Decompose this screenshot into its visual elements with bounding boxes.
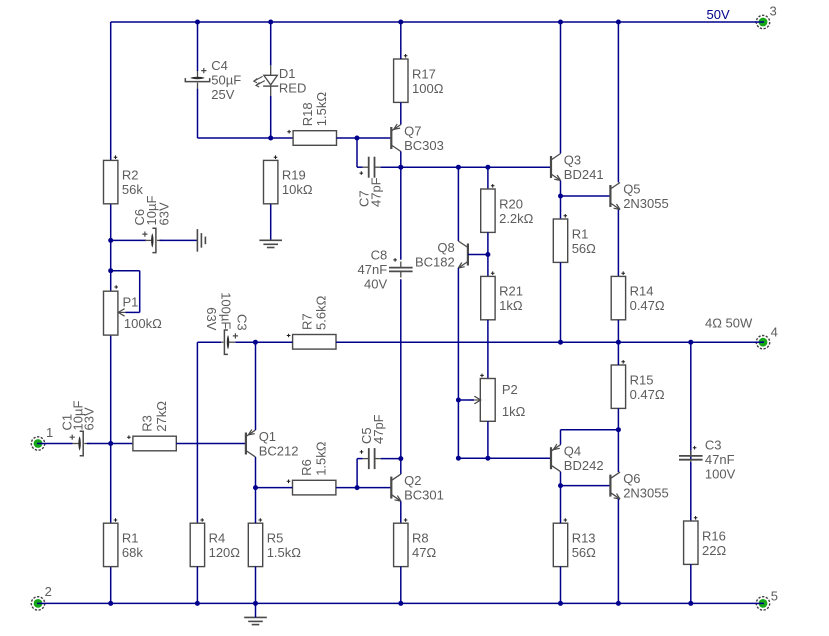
node C1/R3/left-rail junction xyxy=(108,441,113,446)
svg-text:R6: R6 xyxy=(299,459,314,476)
svg-text:BC212: BC212 xyxy=(259,443,299,458)
transistor Q7 BC303 PNP xyxy=(391,123,444,153)
resistor R4 120 xyxy=(190,518,240,566)
node C6 junction on left rail xyxy=(108,238,113,243)
svg-text:10kΩ: 10kΩ xyxy=(282,182,313,197)
capacitor C5 47pF xyxy=(363,448,381,469)
svg-text:56Ω: 56Ω xyxy=(572,545,596,560)
svg-text:1kΩ: 1kΩ xyxy=(502,404,526,419)
resistor R1 56 xyxy=(553,214,596,262)
svg-text:63V: 63V xyxy=(157,202,172,225)
svg-text:R19: R19 xyxy=(282,168,306,183)
wire top rail to C4 xyxy=(197,22,199,71)
potentiometer P1 100k xyxy=(104,285,163,335)
svg-text:27kΩ: 27kΩ xyxy=(154,401,169,432)
svg-text:R14: R14 xyxy=(630,284,654,299)
wire to Q6 base xyxy=(561,485,611,487)
wire rail to ground symbol xyxy=(255,603,257,617)
wire R2 bottom to P1 top xyxy=(110,204,112,291)
wire node to R5 xyxy=(255,488,257,524)
wire to Q5 base xyxy=(561,195,611,197)
svg-text:5.6kΩ: 5.6kΩ xyxy=(314,295,329,330)
node R1(56)/output rail junction xyxy=(558,340,563,345)
wire Q4 collector down xyxy=(560,472,562,486)
svg-text:100µF: 100µF xyxy=(218,292,233,329)
resistor R20 2.2k xyxy=(481,184,534,232)
wire +50V top rail xyxy=(111,21,757,23)
svg-text:R13: R13 xyxy=(572,531,596,546)
svg-text:BC303: BC303 xyxy=(404,138,444,153)
wire D1 to R18 row xyxy=(270,96,272,138)
node R8/ground junction xyxy=(398,601,403,606)
transistor Q8 BC182 NPN mirrored xyxy=(415,240,468,269)
wire node to C8 xyxy=(400,167,402,260)
wire Q6 collector up xyxy=(617,430,619,472)
svg-text:BD242: BD242 xyxy=(564,458,604,473)
resistor R17 100 xyxy=(394,54,444,102)
node P2 bottom junction xyxy=(485,456,490,461)
wire node to R6 xyxy=(256,487,293,489)
svg-text:Q4: Q4 xyxy=(564,444,581,459)
svg-text:22Ω: 22Ω xyxy=(702,543,726,558)
transistor Q3 BD241 NPN xyxy=(551,152,604,182)
wire C7 left vertical xyxy=(356,138,358,167)
wire Q4 emitter to R15/Q6 node xyxy=(561,429,619,431)
wire C5 right plate to Q2 collector line xyxy=(381,458,401,460)
wire C4/D1 row to R18 xyxy=(198,137,294,139)
transistor Q1 BC212 PNP xyxy=(246,429,299,459)
wire C1 to R3 xyxy=(87,443,133,445)
svg-text:R17: R17 xyxy=(412,66,436,81)
svg-text:R15: R15 xyxy=(630,372,654,387)
svg-text:68k: 68k xyxy=(122,545,143,560)
capacitor C3 100uF electrolytic (feedback) xyxy=(217,330,238,354)
svg-text:3: 3 xyxy=(770,4,777,19)
resistor R18 1.5k xyxy=(287,92,336,146)
wire Q1 emitter up to output node xyxy=(255,342,257,430)
svg-text:R1: R1 xyxy=(122,531,139,546)
wire node to R13 xyxy=(560,486,562,524)
resistor R2 56k xyxy=(104,155,144,203)
wire output rail to C3 zobel xyxy=(690,342,692,460)
svg-text:0.47Ω: 0.47Ω xyxy=(630,298,665,313)
svg-text:Q5: Q5 xyxy=(623,181,640,196)
svg-text:1.5kΩ: 1.5kΩ xyxy=(314,441,329,476)
wire R4 to ground rail xyxy=(196,567,198,604)
resistor R6 1.5k xyxy=(287,441,336,495)
svg-text:40V: 40V xyxy=(364,276,387,291)
wire C3 to Q1 emitter node xyxy=(235,341,255,343)
wire C4 to R18 row xyxy=(197,89,199,138)
node R20 top junction xyxy=(485,165,490,170)
wire feedback corner down to R4 (crosses input row) xyxy=(196,342,198,523)
svg-text:R4: R4 xyxy=(209,531,226,546)
svg-text:C4: C4 xyxy=(211,58,228,73)
transistor Q2 BC301 NPN xyxy=(391,473,444,503)
transistor Q6 2N3055 NPN xyxy=(610,471,668,501)
resistor R1 68k xyxy=(104,518,144,566)
wire Q6 emitter to ground rail xyxy=(617,499,619,603)
wire R17 to Q7 emitter xyxy=(400,102,402,124)
svg-text:R5: R5 xyxy=(267,531,284,546)
svg-text:C3: C3 xyxy=(234,314,249,331)
node Q8 emitter/Q4 base row junction xyxy=(456,456,461,461)
node R18/C7 junction xyxy=(355,136,360,141)
wire wiper vertical xyxy=(139,271,141,313)
wire Q8 base to R20/R21 node xyxy=(468,254,488,256)
svg-text:P2: P2 xyxy=(502,382,518,397)
node R16/ground junction xyxy=(688,601,693,606)
node C4/top rail junction xyxy=(195,20,200,25)
svg-text:Q8: Q8 xyxy=(437,240,454,255)
wire to C6 xyxy=(111,239,146,241)
wire to C5 xyxy=(357,458,363,460)
svg-text:R20: R20 xyxy=(499,196,523,211)
resistor R21 1k xyxy=(481,271,523,319)
svg-text:R16: R16 xyxy=(702,528,726,543)
wire R1(56) to output rail xyxy=(560,262,562,342)
svg-text:4: 4 xyxy=(771,325,778,340)
wire R14 to output rail xyxy=(617,320,619,342)
svg-text:Q3: Q3 xyxy=(564,152,581,167)
svg-text:R1: R1 xyxy=(572,226,589,241)
capacitor C3 47nF zobel xyxy=(679,450,703,466)
ground (right-facing) after C6 xyxy=(197,229,205,252)
svg-text:63V: 63V xyxy=(204,307,219,330)
capacitor C6 10uF electrolytic xyxy=(142,228,163,252)
node Q3 emitter/Q5 base junction xyxy=(558,194,563,199)
node R20/R21/Q8 base junction xyxy=(485,252,490,257)
node Q8 collector junction xyxy=(456,165,461,170)
terminal pad 2 xyxy=(31,597,45,610)
wire R6 to Q2 base xyxy=(336,487,391,489)
svg-text:1: 1 xyxy=(46,425,53,440)
wire C7 right plate to node xyxy=(381,166,401,168)
resistor R8 47 xyxy=(394,518,437,566)
resistor R5 1.5k xyxy=(248,518,301,566)
node Q4 collector/Q6 base/R13 junction xyxy=(558,483,563,488)
wire top rail to R17 xyxy=(400,22,402,59)
svg-text:63V: 63V xyxy=(81,407,96,430)
wire Q7 collector down xyxy=(400,151,402,167)
wire Q7 collector row to Q3 base xyxy=(401,166,551,168)
svg-text:Q2: Q2 xyxy=(404,473,421,488)
resistor R7 5.6k xyxy=(287,295,336,349)
wire R5 to ground rail xyxy=(255,567,257,604)
wire terminal1 to C1 xyxy=(45,443,73,445)
wire R3 to Q1 base xyxy=(176,443,246,445)
wire output rail to R15 xyxy=(617,342,619,365)
svg-text:BC182: BC182 xyxy=(415,254,455,269)
svg-text:47nF: 47nF xyxy=(705,452,735,467)
wire C3 zobel to R16 xyxy=(690,462,692,521)
svg-text:56Ω: 56Ω xyxy=(572,241,596,256)
wire Q1 collector down xyxy=(255,457,257,488)
node left rail/ground rail junction xyxy=(108,601,113,606)
resistor R14 0.47 xyxy=(611,271,665,319)
potentiometer P2 1k xyxy=(469,374,526,422)
svg-text:0.47Ω: 0.47Ω xyxy=(630,387,665,402)
wire ground bottom rail xyxy=(45,602,756,604)
node R15/Q6 collector/Q4 emitter junction xyxy=(616,427,621,432)
wire top rail to D1 xyxy=(270,22,272,65)
svg-text:47nF: 47nF xyxy=(358,262,388,277)
wire wiper to P1 xyxy=(126,311,140,313)
wire left rail top to R2 xyxy=(110,22,112,160)
wire R21 to P2 (crosses output rail) xyxy=(487,320,489,379)
svg-text:56k: 56k xyxy=(122,182,143,197)
wire wiper junction to P2 xyxy=(458,399,474,401)
resistor R16 22 xyxy=(684,516,727,564)
wire R18 to Q7 base xyxy=(337,137,392,139)
svg-text:Q7: Q7 xyxy=(404,123,421,138)
wire to Q4 base xyxy=(458,457,551,459)
wire Q5 emitter to R14 xyxy=(617,210,619,277)
svg-text:D1: D1 xyxy=(279,66,296,81)
terminal pad 1 (input) xyxy=(31,437,45,450)
svg-text:1kΩ: 1kΩ xyxy=(499,298,523,313)
svg-text:47Ω: 47Ω xyxy=(412,545,436,560)
svg-text:Q6: Q6 xyxy=(623,471,640,486)
svg-text:120Ω: 120Ω xyxy=(209,545,241,560)
wire P2 bottom to Q4 base row xyxy=(487,421,489,458)
wire R7 right to output xyxy=(336,341,756,343)
terminal pad 4 (output) xyxy=(756,336,770,349)
node D1/R18/R19 junction xyxy=(268,136,273,141)
svg-text:50µF: 50µF xyxy=(211,72,241,87)
svg-text:2N3055: 2N3055 xyxy=(623,485,669,500)
svg-text:100Ω: 100Ω xyxy=(412,81,444,96)
wire R8 to ground rail xyxy=(400,567,402,604)
capacitor C1 10uF electrolytic xyxy=(70,431,91,455)
terminal pad 3 (+50V) xyxy=(756,15,770,28)
svg-text:R21: R21 xyxy=(499,284,523,299)
svg-text:2.2kΩ: 2.2kΩ xyxy=(499,211,534,226)
wire Q3 emitter down xyxy=(560,181,562,196)
svg-text:P1: P1 xyxy=(123,295,139,310)
svg-text:1.5kΩ: 1.5kΩ xyxy=(267,545,302,560)
wire C3 to corner xyxy=(197,341,221,343)
svg-text:2N3055: 2N3055 xyxy=(623,196,669,211)
ground below R19 xyxy=(259,240,282,247)
wire Q2 emitter to R8 xyxy=(400,501,402,523)
wire R1 bottom to ground rail xyxy=(110,567,112,604)
wire P1 bottom to R1 top xyxy=(110,335,112,523)
svg-text:Q1: Q1 xyxy=(259,429,276,444)
wire R7 left xyxy=(255,341,292,343)
svg-text:BD241: BD241 xyxy=(564,167,604,182)
node R17/top rail junction xyxy=(398,20,403,25)
wire R13 to ground rail xyxy=(560,567,562,604)
node Q5 collector/top rail junction xyxy=(616,20,621,25)
svg-text:R7: R7 xyxy=(299,313,314,330)
wire R15 to node xyxy=(617,408,619,429)
node R6/C5 junction xyxy=(355,485,360,490)
terminal pad 5 xyxy=(756,597,770,610)
svg-text:47pF: 47pF xyxy=(371,414,386,444)
svg-text:BC301: BC301 xyxy=(404,487,444,502)
svg-text:100kΩ: 100kΩ xyxy=(124,316,162,331)
svg-text:C3: C3 xyxy=(705,438,722,453)
svg-text:C8: C8 xyxy=(371,247,388,262)
node P2 wiper junction xyxy=(456,398,461,403)
wire C8 to Q2 collector (crosses output rail) xyxy=(400,279,402,474)
ground below bottom rail xyxy=(244,617,267,624)
svg-text:25V: 25V xyxy=(211,87,234,102)
wire C6 to ground xyxy=(160,239,198,241)
svg-text:RED: RED xyxy=(279,80,306,95)
wire R20 to R21 xyxy=(487,232,489,276)
svg-text:5: 5 xyxy=(771,588,778,603)
resistor R13 56 xyxy=(553,518,596,566)
wire C5 left vertical xyxy=(356,459,358,488)
resistor R15 0.47 xyxy=(611,360,665,408)
transistor Q5 2N3055 NPN xyxy=(610,181,668,211)
node Q3 collector/top rail junction xyxy=(558,20,563,25)
svg-text:R3: R3 xyxy=(140,415,155,432)
wire node down to R1(56) xyxy=(560,196,562,219)
wire to C7 left plate xyxy=(357,166,363,168)
capacitor C8 47nF xyxy=(389,262,413,278)
wire R19 to ground xyxy=(270,204,272,240)
wire R20 top xyxy=(487,167,489,189)
svg-text:100V: 100V xyxy=(705,467,736,482)
node Q1 emitter/C3/R7 junction xyxy=(253,340,258,345)
capacitor C7 47pF xyxy=(363,157,381,178)
svg-text:1.5kΩ: 1.5kΩ xyxy=(314,92,329,127)
wire Q8 emitter down to Q4 base row xyxy=(457,268,459,458)
node Q1 collector/R6/R5 junction xyxy=(253,485,258,490)
resistor R19 10k xyxy=(264,155,313,203)
wire node to Q8 collector xyxy=(457,167,459,241)
capacitor C4 50uF electrolytic xyxy=(185,68,209,89)
svg-text:R2: R2 xyxy=(122,168,139,183)
wire R16 to ground rail xyxy=(690,564,692,603)
node Q7 collector/C7/C8 junction xyxy=(398,165,403,170)
node P1 wiper junction xyxy=(108,268,113,273)
node Q6 emitter/ground junction xyxy=(616,601,621,606)
wire wiper junction to bend xyxy=(111,270,140,272)
svg-text:R18: R18 xyxy=(300,102,315,126)
wire top rail to Q3 collector xyxy=(560,22,562,153)
node R13/ground junction xyxy=(558,601,563,606)
svg-text:2: 2 xyxy=(45,584,52,599)
svg-text:4Ω 50W: 4Ω 50W xyxy=(705,316,753,331)
node C5/Q2 collector junction xyxy=(398,456,403,461)
wire Q4 emitter up xyxy=(560,430,562,445)
wire output rail xyxy=(255,341,756,343)
svg-text:47pF: 47pF xyxy=(369,177,384,207)
node R4/ground rail junction xyxy=(195,601,200,606)
LED D1 RED xyxy=(254,65,307,96)
wire top rail to Q5 collector xyxy=(617,22,619,182)
svg-text:50V: 50V xyxy=(707,7,730,22)
svg-text:R8: R8 xyxy=(412,531,429,546)
node R5/ground junction xyxy=(253,601,258,606)
node D1/top rail junction xyxy=(268,20,273,25)
resistor R3 27k xyxy=(127,401,176,451)
node R14/R15/output rail junction xyxy=(616,340,621,345)
node zobel/output rail junction xyxy=(688,340,693,345)
transistor Q4 BD242 PNP xyxy=(551,444,604,474)
